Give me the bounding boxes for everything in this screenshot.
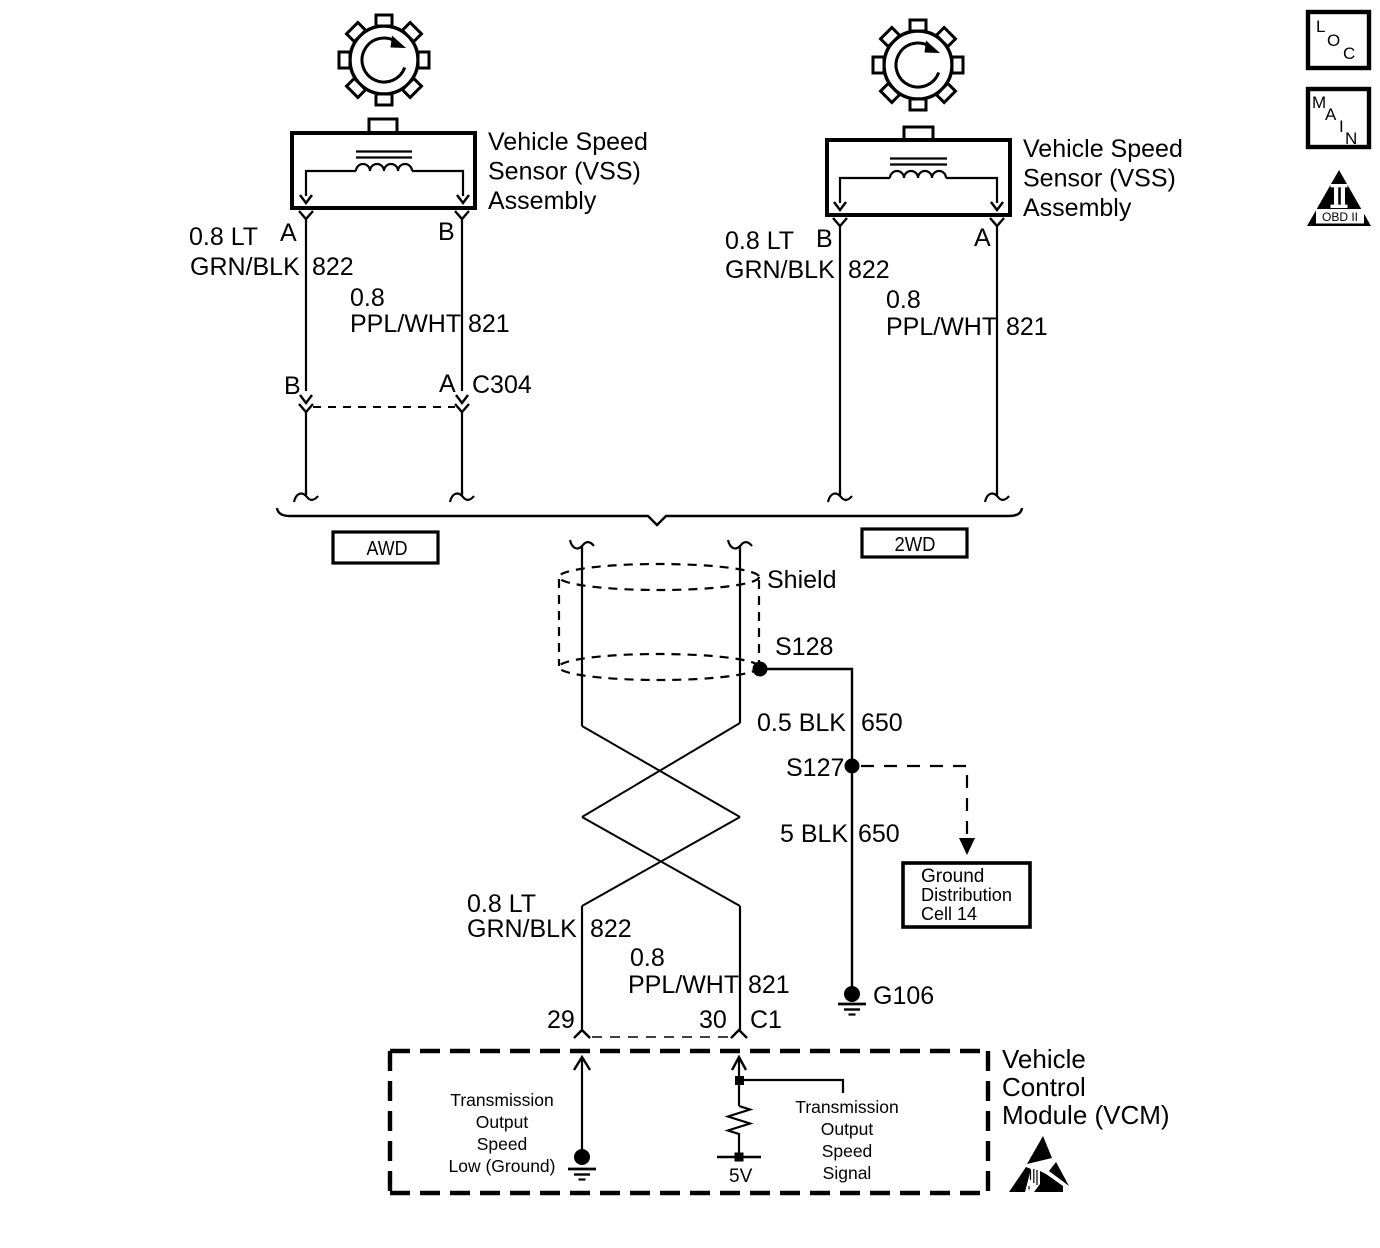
svg-text:650: 650	[861, 709, 903, 737]
svg-text:S128: S128	[775, 633, 833, 661]
svg-text:Low (Ground): Low (Ground)	[449, 1156, 556, 1176]
svg-text:GRN/BLK: GRN/BLK	[725, 256, 835, 284]
svg-text:S127: S127	[786, 754, 844, 782]
svg-text:G106: G106	[873, 982, 934, 1010]
svg-text:Signal: Signal	[823, 1163, 872, 1183]
svg-text:Vehicle Speed: Vehicle Speed	[488, 128, 648, 156]
svg-text:0.8: 0.8	[350, 284, 385, 312]
svg-text:Transmission: Transmission	[450, 1090, 553, 1110]
svg-text:0.8 LT: 0.8 LT	[467, 890, 536, 918]
svg-text:PPL/WHT: PPL/WHT	[628, 971, 739, 999]
svg-text:0.8: 0.8	[630, 944, 665, 972]
svg-text:A: A	[974, 224, 991, 252]
svg-text:Shield: Shield	[767, 566, 837, 594]
svg-text:C: C	[1343, 44, 1355, 63]
svg-text:0.5 BLK: 0.5 BLK	[757, 709, 846, 737]
svg-text:30: 30	[699, 1006, 727, 1034]
svg-text:O: O	[1327, 31, 1340, 50]
svg-text:821: 821	[1006, 313, 1048, 341]
svg-text:Assembly: Assembly	[488, 187, 597, 215]
svg-text:C1: C1	[750, 1006, 782, 1034]
svg-text:Transmission: Transmission	[795, 1097, 898, 1117]
svg-text:Module (VCM): Module (VCM)	[1002, 1100, 1170, 1130]
svg-text:Control: Control	[1002, 1072, 1086, 1102]
svg-text:N: N	[1345, 129, 1357, 148]
svg-text:A: A	[1325, 105, 1337, 124]
svg-text:A: A	[439, 370, 456, 398]
svg-text:I: I	[1339, 117, 1344, 136]
svg-text:B: B	[438, 218, 455, 246]
svg-text:GRN/BLK: GRN/BLK	[190, 253, 300, 281]
svg-text:C304: C304	[472, 371, 532, 399]
svg-text:Distribution: Distribution	[921, 884, 1012, 905]
svg-text:Sensor (VSS): Sensor (VSS)	[1023, 165, 1176, 193]
svg-text:Output: Output	[476, 1112, 529, 1132]
svg-text:822: 822	[312, 253, 354, 281]
svg-text:29: 29	[547, 1006, 575, 1034]
svg-text:Sensor (VSS): Sensor (VSS)	[488, 158, 641, 186]
svg-text:650: 650	[858, 820, 900, 848]
svg-text:Assembly: Assembly	[1023, 194, 1132, 222]
svg-text:GRN/BLK: GRN/BLK	[467, 915, 577, 943]
svg-text:0.8 LT: 0.8 LT	[189, 223, 258, 251]
svg-text:B: B	[284, 372, 301, 400]
svg-text:821: 821	[468, 310, 510, 338]
svg-text:0.8: 0.8	[886, 286, 921, 314]
svg-text:Speed: Speed	[822, 1141, 873, 1161]
svg-text:A: A	[280, 219, 297, 247]
svg-text:Speed: Speed	[477, 1134, 528, 1154]
svg-text:5V: 5V	[729, 1166, 753, 1187]
svg-text:5 BLK: 5 BLK	[780, 820, 848, 848]
svg-text:OBD II: OBD II	[1322, 210, 1358, 224]
svg-text:0.8 LT: 0.8 LT	[725, 227, 794, 255]
svg-text:AWD: AWD	[367, 538, 408, 560]
svg-text:PPL/WHT: PPL/WHT	[350, 310, 461, 338]
svg-text:L: L	[1316, 17, 1325, 36]
svg-text:PPL/WHT: PPL/WHT	[886, 313, 997, 341]
svg-text:Output: Output	[821, 1119, 874, 1139]
svg-text:822: 822	[848, 256, 890, 284]
svg-text:Vehicle: Vehicle	[1002, 1044, 1086, 1074]
svg-text:2WD: 2WD	[895, 534, 936, 556]
svg-text:B: B	[816, 225, 833, 253]
svg-text:821: 821	[748, 971, 790, 999]
svg-text:822: 822	[590, 915, 632, 943]
svg-text:Vehicle Speed: Vehicle Speed	[1023, 135, 1183, 163]
svg-text:Cell 14: Cell 14	[921, 904, 977, 924]
